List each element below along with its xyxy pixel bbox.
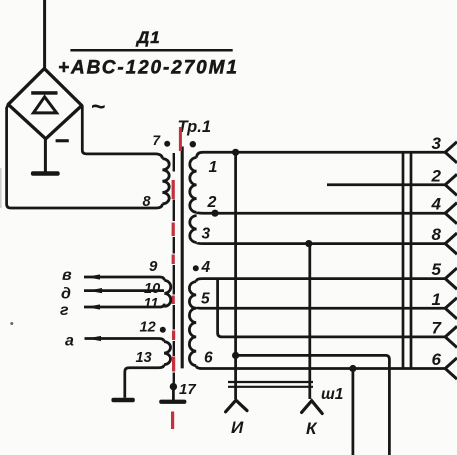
svg-text:6: 6 bbox=[204, 350, 213, 367]
tap 2 wire (row 4) bbox=[197, 211, 445, 215]
wire: 13 to ground bbox=[125, 365, 164, 398]
lead g wire with arrow bbox=[84, 304, 164, 307]
winding 5-6 bbox=[189, 308, 196, 365]
row 2 stub wire bbox=[327, 183, 445, 186]
junction dot I/branch bbox=[232, 352, 239, 359]
connector pin K (fork) bbox=[302, 401, 323, 414]
wire: bridge ~ output to primary top (pin 7) bbox=[82, 106, 162, 159]
scan artifact left edge bbox=[0, 168, 2, 208]
svg-text:10: 10 bbox=[144, 281, 160, 297]
svg-text:4: 4 bbox=[201, 259, 211, 276]
svg-text:в: в bbox=[62, 267, 72, 284]
winding 9-10-11 bbox=[164, 280, 171, 306]
junction dot row6/exit A bbox=[349, 365, 356, 372]
svg-text:7: 7 bbox=[153, 133, 162, 148]
polarity dot winding 1 bbox=[190, 141, 196, 147]
wire: K stem bbox=[308, 244, 311, 399]
svg-text:а: а bbox=[65, 333, 74, 350]
ground (13) bbox=[111, 398, 134, 402]
connector pin 2 bbox=[445, 174, 457, 195]
polarity dot winding 4 bbox=[193, 265, 199, 271]
svg-text:8: 8 bbox=[432, 225, 442, 244]
ground (bridge) bbox=[44, 139, 47, 172]
wire: 17 to ground bbox=[172, 387, 175, 400]
junction dot row3/I bbox=[232, 149, 239, 156]
connector pin I (fork) bbox=[226, 400, 247, 412]
svg-text:7: 7 bbox=[432, 318, 443, 337]
polarity dot winding 12 bbox=[160, 327, 166, 333]
svg-text:4: 4 bbox=[431, 195, 442, 214]
wire: I stem (row3 to connector I) bbox=[234, 152, 237, 399]
svg-text:Д1: Д1 bbox=[135, 28, 161, 47]
svg-text:К: К bbox=[306, 419, 318, 438]
svg-text:д: д bbox=[61, 286, 71, 303]
svg-text:5: 5 bbox=[201, 291, 210, 308]
screen (dash-dot line) terminal 17 bbox=[173, 153, 175, 172]
svg-text:~: ~ bbox=[91, 93, 106, 121]
svg-text:Тр.1: Тр.1 bbox=[178, 118, 212, 136]
connector pin 7 bbox=[445, 326, 457, 347]
svg-text:9: 9 bbox=[149, 258, 158, 275]
wire: bottom exit A bbox=[352, 369, 355, 455]
connector pin 1 bbox=[445, 298, 457, 319]
core (solid line) bbox=[181, 147, 184, 369]
svg-text:17: 17 bbox=[179, 381, 196, 398]
svg-text:8: 8 bbox=[143, 194, 152, 210]
winding 4-5 top wire (row 5) bbox=[196, 279, 445, 282]
svg-text:6: 6 bbox=[432, 350, 442, 369]
row 7 branch wire from row 5 bbox=[218, 279, 445, 337]
svg-text:1: 1 bbox=[432, 290, 441, 309]
svg-text:г: г bbox=[60, 302, 69, 319]
lead d wire with arrow bbox=[84, 289, 164, 292]
terminal dot 7 bbox=[164, 141, 170, 147]
connector pin 3 bbox=[445, 142, 457, 163]
primary winding 7-8 bbox=[162, 159, 169, 204]
svg-text:12: 12 bbox=[140, 320, 156, 336]
svg-text:+АВС-120-270М1: +АВС-120-270М1 bbox=[58, 58, 239, 79]
wire: primary bottom (pin 8) back to bridge bbox=[7, 104, 163, 208]
connector pin 4 bbox=[445, 203, 457, 224]
svg-text:3: 3 bbox=[202, 226, 211, 243]
svg-text:11: 11 bbox=[144, 296, 159, 312]
secondary winding 3 bbox=[190, 216, 197, 243]
lead a wire with arrow bbox=[85, 339, 165, 342]
secondary winding 1-2 (row 3 top wire) bbox=[197, 152, 445, 157]
terminal dot 17 (screen) bbox=[170, 383, 177, 390]
svg-text:13: 13 bbox=[136, 350, 152, 366]
connector pin 6 bbox=[445, 358, 457, 379]
red pencil marks along core bbox=[179, 127, 182, 151]
junction dot tap 2 bbox=[211, 210, 218, 217]
connector pin 8 bbox=[445, 233, 457, 254]
svg-text:5: 5 bbox=[432, 260, 442, 279]
lead v wire with arrow bbox=[84, 277, 164, 280]
svg-text:2: 2 bbox=[431, 166, 442, 185]
winding 3 bottom wire (row 8) bbox=[197, 242, 445, 243]
ground (17) bbox=[159, 400, 186, 404]
junction dot row 8 / K branch bbox=[305, 240, 312, 247]
svg-text:ш1: ш1 bbox=[321, 386, 343, 403]
minus label bbox=[56, 139, 69, 142]
svg-text:2: 2 bbox=[207, 194, 217, 211]
svg-text:И: И bbox=[231, 418, 244, 437]
connector body lines (bus) bbox=[402, 152, 405, 368]
tap 5 wire (row 1) bbox=[196, 307, 445, 308]
wire: top feed to bridge bbox=[43, 0, 46, 70]
connector plug face (double line) bbox=[228, 381, 313, 383]
connector pin 5 bbox=[445, 268, 457, 289]
winding 6 bottom wire (row 6) bbox=[196, 366, 445, 369]
winding 12-13 bbox=[164, 342, 171, 365]
wire: branch to bottom exit B bbox=[236, 355, 390, 455]
bridge rectifier D1 (diamond) bbox=[8, 69, 82, 139]
svg-text:3: 3 bbox=[432, 134, 442, 153]
fraction bar bbox=[70, 49, 232, 52]
diode symbol inside bridge bbox=[31, 91, 57, 95]
svg-text:1: 1 bbox=[209, 159, 218, 176]
